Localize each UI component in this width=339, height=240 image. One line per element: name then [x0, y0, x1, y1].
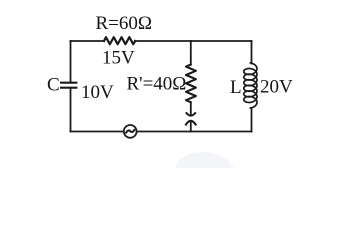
svg-text:L: L [230, 77, 242, 98]
resistor R1 (R=60 ohm) zigzag [104, 37, 135, 44]
wire left side above capacitor [70, 41, 72, 82]
wire source to bottom-right corner [137, 131, 251, 133]
wire bottom-left to source [71, 131, 124, 133]
wire top-left to resistor R [71, 40, 105, 42]
wire middle branch from top [190, 41, 192, 65]
terminal hook upper [187, 113, 196, 116]
svg-text:R=60Ω: R=60Ω [96, 13, 153, 34]
wire below R2 to terminal [190, 102, 192, 115]
resistor R2 (R'=40 ohm) vertical zigzag [186, 65, 196, 103]
AC source tilde [126, 130, 134, 133]
svg-text:10V: 10V [81, 82, 114, 103]
faint smudge bottom [175, 152, 234, 168]
inductor L coil [244, 63, 257, 108]
svg-text:20V: 20V [260, 77, 293, 98]
wire left side below capacitor [70, 89, 72, 132]
wire right side below inductor [251, 108, 253, 132]
terminal hook lower [186, 121, 196, 125]
wire terminal to bottom [190, 122, 192, 132]
AC source circle [124, 125, 137, 138]
svg-text:C: C [47, 75, 60, 96]
svg-text:R'=40Ω: R'=40Ω [127, 74, 187, 95]
wire right side above inductor [251, 41, 253, 64]
svg-text:15V: 15V [102, 48, 135, 69]
capacitor C plates [60, 82, 77, 84]
wire resistor R to top-right corner [135, 40, 251, 42]
